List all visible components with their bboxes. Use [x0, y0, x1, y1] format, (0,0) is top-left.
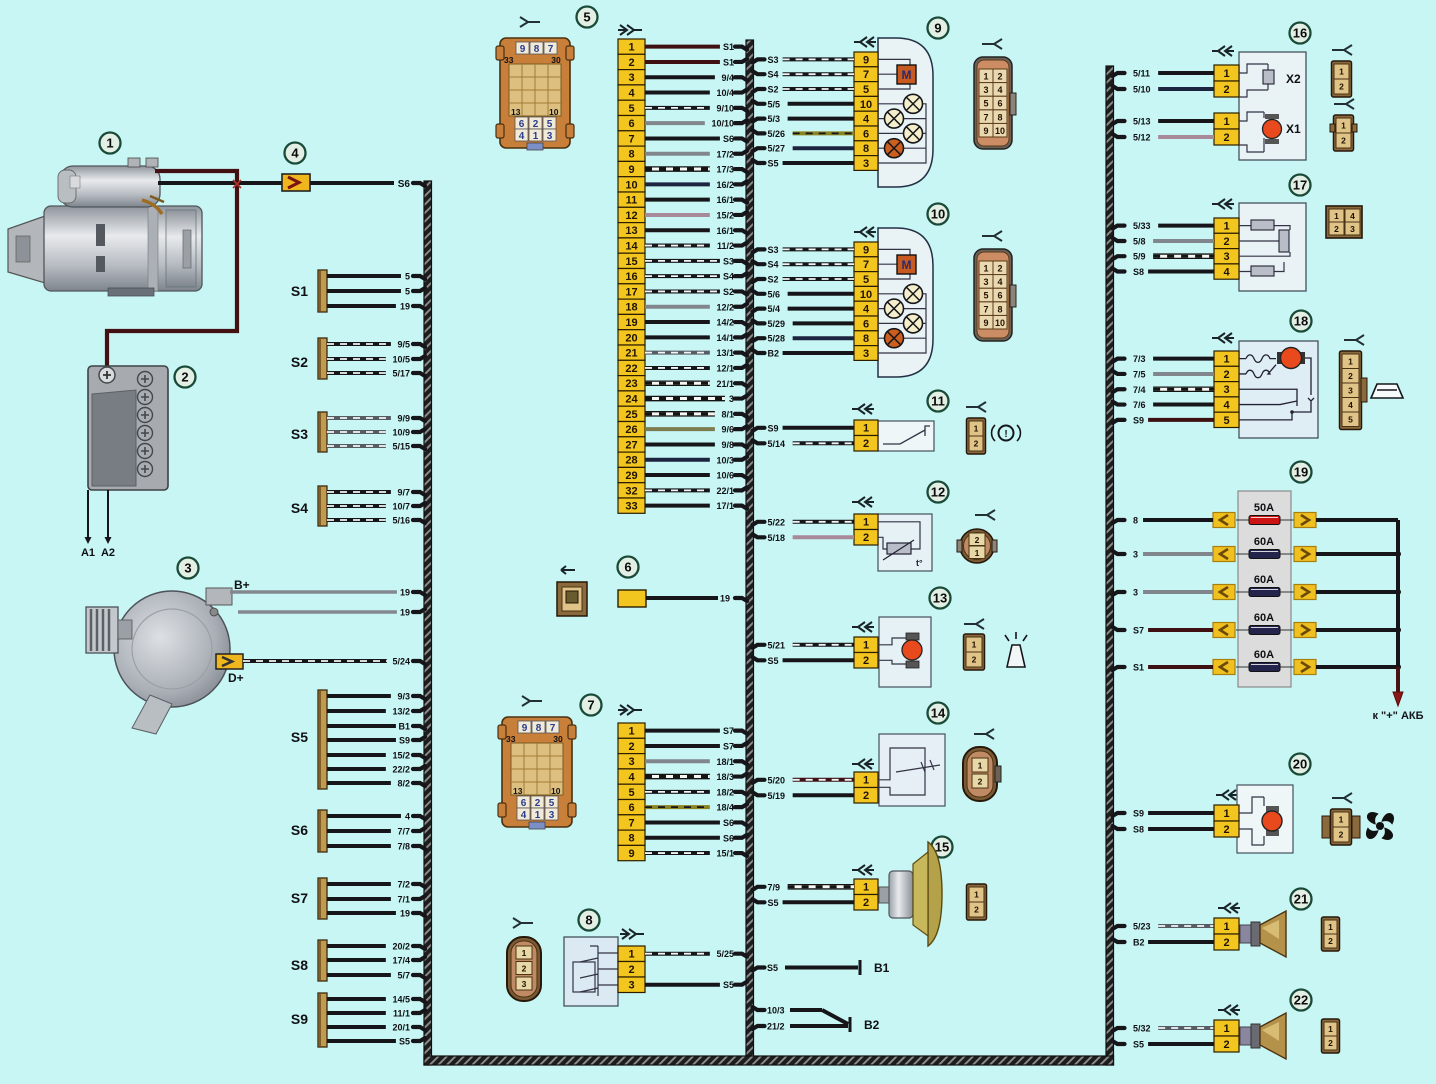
- svg-text:S7: S7: [291, 890, 308, 906]
- svg-text:2: 2: [1223, 824, 1229, 836]
- svg-text:14: 14: [625, 241, 638, 253]
- svg-text:17/2: 17/2: [716, 149, 734, 159]
- svg-text:S5: S5: [1133, 1040, 1144, 1050]
- svg-text:26: 26: [625, 424, 637, 436]
- svg-text:20: 20: [625, 332, 637, 344]
- svg-text:2: 2: [535, 798, 541, 809]
- svg-text:1: 1: [1223, 354, 1229, 366]
- svg-text:S4: S4: [291, 500, 308, 516]
- svg-text:S1: S1: [291, 283, 308, 299]
- svg-text:S4: S4: [723, 272, 734, 282]
- svg-text:21: 21: [1294, 892, 1308, 907]
- svg-text:5: 5: [863, 274, 869, 286]
- svg-text:5/16: 5/16: [392, 516, 410, 526]
- svg-text:S1: S1: [723, 57, 734, 67]
- svg-text:5: 5: [583, 10, 590, 25]
- svg-text:S3: S3: [291, 426, 308, 442]
- svg-text:3: 3: [1223, 384, 1229, 396]
- svg-text:9/9: 9/9: [397, 414, 410, 424]
- svg-text:6: 6: [624, 560, 631, 575]
- svg-text:1: 1: [974, 890, 979, 900]
- svg-text:5/29: 5/29: [768, 319, 786, 329]
- svg-text:A1: A1: [81, 547, 95, 559]
- svg-text:6: 6: [863, 128, 869, 140]
- svg-text:3: 3: [1133, 550, 1138, 560]
- svg-text:S3: S3: [768, 245, 779, 255]
- svg-text:9: 9: [983, 126, 988, 136]
- svg-text:5/8: 5/8: [1133, 237, 1146, 247]
- svg-text:10/5: 10/5: [392, 355, 410, 365]
- svg-text:60A: 60A: [1254, 612, 1274, 624]
- svg-text:5: 5: [549, 798, 555, 809]
- svg-text:7: 7: [587, 698, 594, 713]
- svg-text:3: 3: [863, 158, 869, 170]
- svg-text:B2: B2: [1133, 938, 1145, 948]
- svg-text:12: 12: [625, 210, 637, 222]
- svg-text:13/2: 13/2: [392, 707, 410, 717]
- svg-text:5/5: 5/5: [768, 99, 781, 109]
- svg-text:4: 4: [1350, 211, 1355, 221]
- svg-text:1: 1: [975, 548, 980, 558]
- svg-text:1: 1: [106, 136, 113, 151]
- svg-text:1: 1: [1223, 1023, 1229, 1035]
- svg-text:21: 21: [625, 348, 637, 360]
- svg-text:19: 19: [400, 302, 410, 312]
- svg-text:7: 7: [548, 44, 554, 55]
- svg-text:2: 2: [1339, 82, 1344, 92]
- svg-text:3: 3: [628, 980, 634, 992]
- svg-text:10/7: 10/7: [392, 502, 410, 512]
- svg-text:2: 2: [863, 790, 869, 802]
- svg-text:M: M: [902, 68, 912, 82]
- svg-text:15/2: 15/2: [716, 210, 734, 220]
- svg-text:23: 23: [625, 378, 637, 390]
- svg-text:6: 6: [997, 291, 1002, 301]
- svg-text:4: 4: [628, 772, 635, 784]
- svg-text:2: 2: [1328, 936, 1333, 946]
- svg-text:3: 3: [863, 348, 869, 360]
- svg-text:3: 3: [547, 131, 553, 142]
- svg-text:5/11: 5/11: [1133, 69, 1150, 79]
- svg-text:5/17: 5/17: [392, 369, 410, 379]
- svg-text:3: 3: [983, 85, 988, 95]
- svg-text:1: 1: [535, 810, 541, 821]
- svg-text:9/7: 9/7: [397, 488, 410, 498]
- svg-text:2: 2: [628, 57, 634, 69]
- svg-text:B2: B2: [768, 349, 780, 359]
- svg-text:8: 8: [863, 143, 869, 155]
- svg-text:1: 1: [983, 264, 988, 274]
- svg-text:5/23: 5/23: [1133, 922, 1151, 932]
- svg-text:12/1: 12/1: [716, 363, 734, 373]
- svg-text:19: 19: [1294, 465, 1308, 480]
- svg-text:2: 2: [863, 532, 869, 544]
- svg-text:S6: S6: [291, 822, 308, 838]
- svg-text:10: 10: [995, 126, 1005, 136]
- svg-text:S9: S9: [1133, 415, 1144, 425]
- svg-text:2: 2: [863, 655, 869, 667]
- svg-text:X1: X1: [1286, 122, 1301, 136]
- svg-text:S4: S4: [768, 70, 779, 80]
- svg-text:8: 8: [628, 149, 634, 161]
- svg-text:5: 5: [1348, 414, 1353, 424]
- svg-text:S8: S8: [291, 957, 308, 973]
- svg-text:8: 8: [997, 112, 1002, 122]
- svg-text:5: 5: [983, 291, 988, 301]
- svg-text:1: 1: [533, 131, 539, 142]
- svg-text:1: 1: [1334, 211, 1339, 221]
- svg-text:4: 4: [1348, 400, 1353, 410]
- svg-text:3: 3: [1223, 251, 1229, 263]
- svg-text:4: 4: [997, 277, 1002, 287]
- svg-text:5/25: 5/25: [716, 949, 734, 959]
- svg-text:5/14: 5/14: [768, 439, 786, 449]
- svg-text:13/1: 13/1: [716, 348, 734, 358]
- svg-text:24: 24: [625, 394, 638, 406]
- svg-text:9/6: 9/6: [721, 425, 734, 435]
- svg-text:14/2: 14/2: [716, 318, 734, 328]
- svg-text:1: 1: [1223, 221, 1229, 233]
- svg-text:1: 1: [1223, 808, 1229, 820]
- svg-text:15: 15: [625, 256, 637, 268]
- svg-text:15/2: 15/2: [392, 751, 410, 761]
- svg-text:3: 3: [1350, 224, 1355, 234]
- svg-text:5/3: 5/3: [768, 114, 781, 124]
- svg-text:S1: S1: [723, 42, 734, 52]
- svg-text:2: 2: [997, 72, 1002, 82]
- svg-text:9: 9: [863, 244, 869, 256]
- svg-text:3: 3: [628, 756, 634, 768]
- svg-text:S2: S2: [291, 354, 308, 370]
- svg-text:17: 17: [1293, 178, 1307, 193]
- svg-text:8: 8: [536, 723, 542, 734]
- svg-text:2: 2: [522, 964, 527, 974]
- svg-text:S8: S8: [1133, 825, 1144, 835]
- svg-text:2: 2: [533, 119, 539, 130]
- svg-text:16: 16: [625, 271, 637, 283]
- svg-text:22/1: 22/1: [716, 486, 734, 496]
- svg-text:5: 5: [983, 99, 988, 109]
- svg-text:5/18: 5/18: [768, 533, 786, 543]
- svg-text:3: 3: [549, 810, 555, 821]
- svg-text:9/4: 9/4: [721, 73, 734, 83]
- svg-text:10: 10: [860, 99, 872, 111]
- svg-text:S2: S2: [723, 287, 734, 297]
- svg-text:5/13: 5/13: [1133, 117, 1151, 127]
- svg-text:2: 2: [1223, 132, 1229, 144]
- svg-text:3: 3: [522, 979, 527, 989]
- svg-text:8: 8: [628, 833, 634, 845]
- svg-text:4: 4: [1223, 267, 1230, 279]
- svg-text:10/10: 10/10: [711, 119, 734, 129]
- svg-text:S9: S9: [1133, 809, 1144, 819]
- svg-text:1: 1: [972, 640, 977, 650]
- svg-text:7/8: 7/8: [397, 842, 410, 852]
- svg-text:15/1: 15/1: [716, 849, 734, 859]
- svg-text:10/3: 10/3: [767, 1006, 785, 1016]
- svg-text:S8: S8: [1133, 267, 1144, 277]
- svg-text:11/1: 11/1: [393, 1009, 410, 1019]
- svg-text:S5: S5: [291, 729, 308, 745]
- svg-text:9: 9: [522, 723, 528, 734]
- svg-text:60A: 60A: [1254, 649, 1274, 661]
- svg-text:5: 5: [628, 103, 634, 115]
- svg-text:19: 19: [400, 909, 410, 919]
- svg-text:8: 8: [585, 913, 592, 928]
- svg-text:7/4: 7/4: [1133, 385, 1146, 395]
- svg-text:8: 8: [863, 333, 869, 345]
- svg-text:22: 22: [1294, 993, 1308, 1008]
- svg-text:17: 17: [625, 286, 637, 298]
- svg-text:6: 6: [519, 119, 525, 130]
- svg-text:16/1: 16/1: [716, 226, 734, 236]
- svg-text:5/10: 5/10: [1133, 85, 1151, 95]
- svg-text:7/6: 7/6: [1133, 400, 1146, 410]
- svg-text:4: 4: [997, 85, 1002, 95]
- svg-text:2: 2: [863, 438, 869, 450]
- svg-text:S5: S5: [768, 898, 779, 908]
- svg-text:9: 9: [983, 318, 988, 328]
- svg-text:7: 7: [628, 133, 634, 145]
- svg-text:16/1: 16/1: [716, 195, 734, 205]
- svg-text:S7: S7: [1133, 626, 1144, 636]
- svg-text:5: 5: [405, 287, 410, 297]
- svg-text:5/6: 5/6: [768, 289, 781, 299]
- svg-text:5/7: 5/7: [397, 971, 410, 981]
- svg-text:5: 5: [863, 84, 869, 96]
- svg-text:18: 18: [1294, 314, 1308, 329]
- svg-text:1: 1: [522, 948, 527, 958]
- svg-text:18/2: 18/2: [716, 787, 734, 797]
- svg-text:20/2: 20/2: [392, 942, 410, 952]
- svg-text:1: 1: [1223, 68, 1229, 80]
- svg-text:17/1: 17/1: [716, 501, 734, 511]
- svg-text:25: 25: [625, 409, 637, 421]
- svg-text:9/5: 9/5: [397, 340, 410, 350]
- svg-text:7/3: 7/3: [1133, 354, 1146, 364]
- svg-text:t°: t°: [916, 558, 923, 568]
- svg-text:3: 3: [1133, 588, 1138, 598]
- svg-text:S2: S2: [768, 275, 779, 285]
- svg-text:12: 12: [931, 485, 945, 500]
- svg-text:2: 2: [181, 370, 188, 385]
- svg-text:5/4: 5/4: [768, 304, 781, 314]
- svg-text:17/4: 17/4: [392, 956, 410, 966]
- svg-text:22: 22: [625, 363, 637, 375]
- svg-text:S5: S5: [768, 159, 779, 169]
- svg-text:13: 13: [625, 225, 637, 237]
- svg-text:1: 1: [628, 726, 634, 738]
- svg-text:13: 13: [511, 107, 521, 117]
- svg-text:2: 2: [1223, 937, 1229, 949]
- svg-text:1: 1: [1339, 67, 1344, 77]
- svg-text:60A: 60A: [1254, 536, 1274, 548]
- svg-text:1: 1: [863, 517, 869, 529]
- svg-text:50A: 50A: [1254, 502, 1274, 514]
- svg-text:9/3: 9/3: [397, 692, 410, 702]
- svg-text:1: 1: [1223, 116, 1229, 128]
- svg-text:A2: A2: [101, 547, 115, 559]
- svg-text:1: 1: [863, 775, 869, 787]
- svg-text:17/3: 17/3: [716, 165, 734, 175]
- svg-text:13: 13: [513, 786, 523, 796]
- svg-text:8: 8: [534, 44, 540, 55]
- svg-text:10/3: 10/3: [716, 455, 734, 465]
- svg-text:1: 1: [978, 761, 983, 771]
- svg-text:19: 19: [400, 608, 410, 618]
- svg-text:10/6: 10/6: [716, 471, 734, 481]
- svg-text:7: 7: [983, 112, 988, 122]
- svg-text:8: 8: [1133, 516, 1138, 526]
- svg-text:10: 10: [549, 107, 559, 117]
- svg-text:2: 2: [1334, 224, 1339, 234]
- svg-text:5/22: 5/22: [768, 517, 786, 527]
- svg-text:7: 7: [628, 817, 634, 829]
- svg-text:30: 30: [551, 55, 561, 65]
- svg-text:4: 4: [628, 88, 635, 100]
- svg-text:3: 3: [628, 72, 634, 84]
- svg-text:2: 2: [1328, 1038, 1333, 1048]
- svg-text:5: 5: [405, 272, 410, 282]
- svg-text:2: 2: [1223, 369, 1229, 381]
- svg-text:5/26: 5/26: [768, 129, 786, 139]
- svg-text:2: 2: [1223, 236, 1229, 248]
- svg-text:7/5: 7/5: [1133, 369, 1146, 379]
- svg-text:6: 6: [521, 798, 527, 809]
- svg-text:33: 33: [504, 55, 514, 65]
- svg-text:S6: S6: [398, 179, 411, 190]
- svg-text:S2: S2: [768, 85, 779, 95]
- svg-text:S9: S9: [399, 736, 410, 746]
- svg-text:2: 2: [972, 655, 977, 665]
- svg-text:1: 1: [628, 42, 634, 54]
- svg-text:S6: S6: [723, 818, 734, 828]
- svg-text:5/28: 5/28: [768, 334, 786, 344]
- svg-text:11: 11: [626, 195, 638, 207]
- svg-text:S7: S7: [723, 741, 734, 751]
- svg-text:2: 2: [978, 777, 983, 787]
- svg-text:5/21: 5/21: [768, 640, 786, 650]
- svg-text:5/12: 5/12: [1133, 133, 1151, 143]
- svg-text:20: 20: [1293, 757, 1307, 772]
- svg-text:18/3: 18/3: [716, 772, 734, 782]
- svg-text:5/33: 5/33: [1133, 221, 1151, 231]
- svg-text:1: 1: [983, 72, 988, 82]
- svg-text:30: 30: [553, 734, 563, 744]
- svg-text:4: 4: [863, 304, 870, 316]
- svg-text:2: 2: [974, 439, 979, 449]
- svg-text:18/4: 18/4: [716, 803, 734, 813]
- svg-text:8/1: 8/1: [721, 409, 734, 419]
- svg-text:7: 7: [863, 259, 869, 271]
- svg-text:7/7: 7/7: [397, 827, 410, 837]
- svg-text:18/1: 18/1: [716, 757, 734, 767]
- svg-text:12/2: 12/2: [716, 302, 734, 312]
- svg-text:D+: D+: [228, 671, 244, 685]
- svg-text:21/2: 21/2: [767, 1022, 785, 1032]
- svg-text:9: 9: [628, 848, 634, 860]
- svg-text:14/1: 14/1: [716, 333, 734, 343]
- svg-text:4: 4: [405, 812, 410, 822]
- svg-text:2: 2: [997, 264, 1002, 274]
- svg-text:32: 32: [625, 485, 637, 497]
- svg-text:к "+" АКБ: к "+" АКБ: [1372, 710, 1423, 722]
- svg-text:5/19: 5/19: [768, 791, 786, 801]
- svg-text:5: 5: [547, 119, 553, 130]
- svg-text:1: 1: [1328, 922, 1333, 932]
- svg-text:11/2: 11/2: [717, 241, 734, 251]
- svg-text:S7: S7: [723, 726, 734, 736]
- svg-text:M: M: [902, 258, 912, 272]
- svg-text:1: 1: [974, 424, 979, 434]
- svg-text:S9: S9: [768, 423, 779, 433]
- svg-text:14/5: 14/5: [392, 995, 410, 1005]
- svg-text:1: 1: [863, 882, 869, 894]
- svg-text:9: 9: [863, 54, 869, 66]
- svg-text:S3: S3: [768, 55, 779, 65]
- svg-text:2: 2: [1223, 1039, 1229, 1051]
- svg-text:10: 10: [931, 207, 945, 222]
- svg-text:1: 1: [1328, 1024, 1333, 1034]
- svg-text:9: 9: [934, 21, 941, 36]
- svg-text:5/20: 5/20: [768, 775, 786, 785]
- svg-text:S5: S5: [399, 1037, 410, 1047]
- svg-text:10: 10: [860, 289, 872, 301]
- svg-text:16/2: 16/2: [716, 180, 734, 190]
- svg-text:9: 9: [520, 44, 526, 55]
- svg-text:11: 11: [931, 394, 945, 409]
- svg-text:1: 1: [863, 640, 869, 652]
- svg-text:7/1: 7/1: [397, 895, 410, 905]
- svg-text:18: 18: [625, 302, 637, 314]
- svg-text:3: 3: [983, 277, 988, 287]
- svg-text:4: 4: [519, 131, 525, 142]
- svg-text:S5: S5: [768, 656, 779, 666]
- svg-text:4: 4: [863, 114, 870, 126]
- svg-text:B1: B1: [398, 722, 410, 732]
- svg-text:1: 1: [1341, 121, 1346, 131]
- svg-text:15: 15: [935, 840, 949, 855]
- svg-text:S6: S6: [723, 134, 734, 144]
- svg-text:1: 1: [1339, 815, 1344, 825]
- svg-text:27: 27: [625, 439, 637, 451]
- svg-text:19: 19: [400, 588, 410, 598]
- svg-text:2: 2: [975, 535, 980, 545]
- svg-text:2: 2: [628, 741, 634, 753]
- svg-text:S5: S5: [767, 963, 778, 973]
- svg-text:7: 7: [983, 304, 988, 314]
- svg-text:5/32: 5/32: [1133, 1024, 1151, 1034]
- svg-text:B1: B1: [874, 961, 890, 975]
- svg-text:2: 2: [628, 964, 634, 976]
- svg-text:2: 2: [863, 897, 869, 909]
- svg-text:6: 6: [628, 118, 634, 130]
- svg-text:9/10: 9/10: [716, 103, 734, 113]
- svg-text:10: 10: [551, 786, 561, 796]
- svg-text:10: 10: [625, 179, 637, 191]
- svg-text:S1: S1: [1133, 663, 1144, 673]
- svg-text:10: 10: [995, 318, 1005, 328]
- svg-text:5: 5: [1223, 415, 1229, 427]
- svg-text:!: !: [1004, 429, 1007, 440]
- svg-text:S4: S4: [768, 260, 779, 270]
- svg-text:1: 1: [1348, 356, 1353, 366]
- svg-text:3: 3: [1348, 385, 1353, 395]
- svg-text:4: 4: [1223, 400, 1230, 412]
- svg-text:7: 7: [550, 723, 556, 734]
- svg-text:16: 16: [1293, 26, 1307, 41]
- svg-text:9/8: 9/8: [721, 440, 734, 450]
